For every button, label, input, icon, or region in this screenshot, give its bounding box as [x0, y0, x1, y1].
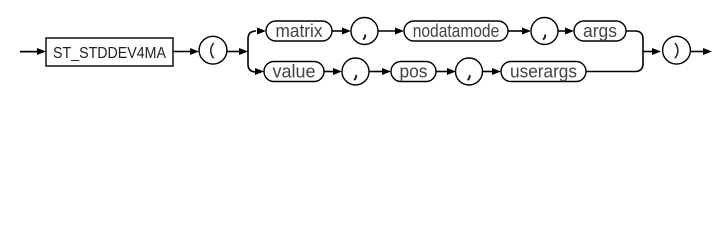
wire: comma to args [558, 30, 566, 32]
terminal circle , (top second) [531, 18, 558, 45]
svg-text:value: value [273, 62, 316, 82]
box ST_STDDEV4MA [46, 38, 173, 66]
oval matrix [266, 21, 332, 41]
svg-text:matrix: matrix [276, 21, 323, 41]
wire: value to comma [324, 71, 335, 73]
arrowhead into pos [382, 68, 391, 75]
terminal circle , (bottom first) [342, 58, 369, 85]
arrowhead into comma circle [522, 28, 531, 35]
arrowhead into args [565, 28, 574, 35]
merge junction vertical [642, 39, 644, 64]
arrowhead into userargs [492, 68, 501, 75]
wire: comma to pos [369, 71, 384, 73]
wire: comma to nodatamode [378, 30, 396, 32]
wire: matrix to comma [332, 30, 344, 32]
arrowhead at split junction [239, 48, 248, 55]
terminal circle ( [199, 36, 227, 64]
wire: userargs to merge corner [586, 64, 643, 72]
svg-text:nodatamode: nodatamode [413, 21, 500, 41]
terminal circle , (top first) [351, 18, 378, 45]
oval args [574, 21, 626, 41]
wire: nodatamode to comma [508, 30, 524, 32]
oval value [264, 62, 324, 82]
final arrowhead [703, 48, 712, 55]
wire: final line [690, 51, 703, 53]
arrowhead into matrix [257, 28, 266, 35]
arrowhead into comma circle [333, 68, 342, 75]
arrowhead into value [255, 68, 264, 75]
terminal circle ) [663, 36, 691, 64]
arrowhead into comma circle [447, 68, 456, 75]
wire: merge to close-paren [643, 51, 653, 53]
svg-text:pos: pos [400, 62, 428, 82]
oval pos [391, 62, 436, 82]
wire: open-paren to split [227, 51, 240, 53]
oval userargs [501, 62, 586, 82]
wire: pos to comma [436, 71, 449, 73]
wire: box to open-paren [173, 51, 191, 53]
oval nodatamode [404, 21, 508, 41]
wire: args to merge corner [626, 31, 643, 39]
terminal circle , (bottom second) [456, 58, 483, 85]
svg-text:args: args [583, 21, 617, 41]
arrowhead into close-paren circle [652, 48, 661, 55]
svg-text:ST_STDDEV4MA: ST_STDDEV4MA [53, 45, 166, 62]
arrowhead into comma circle [342, 28, 351, 35]
wire: start line [20, 51, 38, 53]
wire: comma to userargs [483, 71, 495, 73]
arrowhead into nodatamode [395, 28, 404, 35]
arrowhead into ST_STDDEV4MA box [37, 48, 46, 55]
arrowhead into open-paren circle [190, 48, 199, 55]
split junction vertical with corners [248, 31, 256, 72]
svg-text:userargs: userargs [510, 62, 577, 82]
